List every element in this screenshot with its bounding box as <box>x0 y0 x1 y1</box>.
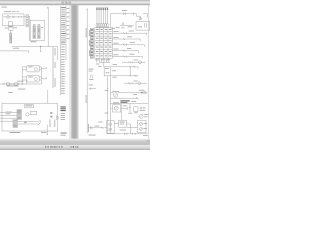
status bar controls <box>45 146 46 148</box>
vertical rail V3 <box>52 47 54 88</box>
connector C2 <box>10 33 12 43</box>
feed step to relay <box>136 14 138 17</box>
terminal drop wires <box>96 10 98 24</box>
bus harness label 1 <box>85 28 88 38</box>
wire W2 horizontal <box>0 50 29 52</box>
wire run K <box>127 126 138 128</box>
page footer right <box>143 134 148 137</box>
label box mid <box>30 111 37 114</box>
wires into ECU left <box>0 111 17 113</box>
stub wire left mid <box>89 88 96 90</box>
connector C10 hatched <box>90 28 93 58</box>
bus join 1 <box>99 61 110 63</box>
label near BC <box>98 121 102 124</box>
code table rows lower <box>61 61 65 64</box>
bus join 3 <box>104 75 138 77</box>
circuit wire E <box>120 55 142 57</box>
relay coil K1 <box>7 16 10 19</box>
feed wire top right <box>143 13 148 15</box>
ignition wire <box>120 25 134 27</box>
label bottom mid <box>120 129 127 132</box>
toolbar buttons <box>61 1 64 4</box>
labels above connectors <box>33 23 36 26</box>
connector C6 <box>13 120 18 128</box>
left schematic page <box>0 5 71 139</box>
toolbar top <box>0 0 150 5</box>
tick on vertical 1 <box>107 88 109 90</box>
contact S3 <box>3 83 5 85</box>
page header note <box>2 6 7 9</box>
harness label vertical 5 <box>53 120 56 128</box>
shield triangle <box>57 116 59 120</box>
lamp cluster <box>139 114 143 118</box>
resistor R1 <box>6 83 9 85</box>
motor pair cluster BR2 <box>138 120 146 132</box>
grid fan wires <box>96 58 98 62</box>
label under wire I <box>133 93 137 96</box>
label box inside top <box>25 104 34 107</box>
vertical V4 <box>47 90 49 103</box>
label above W3 <box>17 80 24 83</box>
left rail ladder <box>21 67 23 84</box>
main bus vertical <box>86 9 88 133</box>
right rail ladder <box>40 67 42 84</box>
C10 pin labels <box>88 30 91 36</box>
dark label pair <box>120 100 129 101</box>
contact S1 <box>41 67 44 69</box>
relay box BR1 <box>119 120 127 127</box>
bus join 2 <box>104 66 138 68</box>
arrow mark <box>25 121 28 123</box>
fusebox grid <box>95 27 113 58</box>
right page border <box>147 5 149 139</box>
connector C1 <box>26 15 28 27</box>
relay block K3 <box>30 20 44 40</box>
motor M1 <box>111 92 114 94</box>
wire run J main <box>111 103 149 105</box>
bottom gray zone <box>0 139 150 144</box>
splice drop <box>129 104 131 107</box>
relay K5 <box>27 75 39 82</box>
label near splice row <box>123 104 127 107</box>
label smudge mid <box>18 88 26 91</box>
fuse row <box>96 24 98 27</box>
circuit wire D <box>120 50 138 52</box>
drop to BR1 <box>121 104 123 121</box>
circuit wire A <box>120 32 147 34</box>
relay box TR <box>136 21 150 30</box>
contact S5 <box>38 123 40 125</box>
ECU label below <box>10 132 21 133</box>
fuse F1 <box>8 22 12 26</box>
long vertical 1 <box>107 76 109 134</box>
wire W3 main <box>0 83 41 85</box>
lamp L1 <box>26 113 29 116</box>
page footer text left page <box>61 132 67 135</box>
connector C5 <box>17 110 22 120</box>
wire down from ECU <box>46 125 48 135</box>
wire J1 to C1 <box>24 16 26 18</box>
harness label vertical 1 <box>54 48 57 56</box>
splice pair <box>89 75 91 79</box>
pin marks <box>50 112 52 114</box>
harness label vertical 3 <box>54 78 57 87</box>
splice tick top <box>133 13 135 15</box>
label small <box>8 91 12 94</box>
contact S4 <box>38 120 40 122</box>
label left mid2 <box>89 84 93 87</box>
title block dark text <box>60 106 65 107</box>
connector C4 <box>38 26 41 39</box>
contact S2 <box>41 78 44 80</box>
wire bottom main <box>107 133 148 135</box>
corner grip <box>146 140 150 142</box>
title block light text <box>61 112 65 115</box>
wire bottom left <box>89 127 107 129</box>
label mid verticals <box>105 89 109 92</box>
ticks on bottom wire <box>123 133 125 135</box>
label feed <box>112 27 115 30</box>
connector C3 <box>33 26 36 39</box>
wire from BR1 <box>126 123 130 125</box>
resistor R2 <box>15 83 18 85</box>
bus harness label 2 <box>85 95 88 103</box>
stub wire y108 <box>122 107 128 109</box>
wire bus in J1 <box>3 16 24 18</box>
junction node A <box>40 46 41 47</box>
long vertical 2 <box>110 67 112 134</box>
wire inner 1 <box>18 121 38 123</box>
label above W1 <box>13 47 19 50</box>
relay K4 <box>27 65 39 72</box>
relay coil K2 <box>12 16 14 18</box>
left page title text <box>4 10 11 13</box>
harness label vertical 4 <box>49 120 52 128</box>
vertical rail V2 <box>57 47 59 60</box>
grid output wires <box>112 32 120 34</box>
stub up <box>26 80 28 84</box>
labels fan <box>96 63 99 66</box>
left labels mid <box>89 68 94 71</box>
harness label vertical 2 <box>54 62 57 68</box>
fusible link FL1 <box>122 12 124 15</box>
circuit wire C <box>120 44 144 46</box>
twin sockets <box>140 107 142 109</box>
fuse F2 <box>9 26 13 30</box>
switch SW1 <box>121 23 123 26</box>
feed wire top <box>111 13 137 15</box>
right schematic page <box>78 5 150 139</box>
wire from C1 down <box>29 16 30 18</box>
wire run I <box>118 92 147 94</box>
wire W1 horizontal <box>12 46 58 48</box>
component cluster CL1 <box>113 101 119 104</box>
junction box J1 <box>3 14 24 26</box>
wire run F <box>122 61 145 63</box>
wire inner 2 <box>18 123 38 125</box>
ECU box <box>2 103 58 131</box>
junction dots W3 <box>18 84 19 85</box>
label below K3 <box>31 41 37 42</box>
wire run G <box>124 82 147 84</box>
status bar <box>0 144 150 150</box>
bus harness label 3 <box>87 124 90 132</box>
riser x130 <box>129 67 131 76</box>
wire run H <box>111 97 139 99</box>
wire F2 down <box>10 30 12 33</box>
label below W3 <box>7 85 19 88</box>
circuit wire B <box>120 38 140 40</box>
label text left <box>6 111 12 114</box>
connector block BC <box>107 121 115 134</box>
code table frame <box>60 6 62 95</box>
label right of J wire <box>131 100 136 103</box>
splice bar 1 <box>129 107 131 112</box>
splice ticks <box>10 83 12 85</box>
code table rows <box>61 6 66 9</box>
contact tick <box>18 16 20 18</box>
gap between pages <box>71 5 79 139</box>
battery terminal row <box>96 8 97 10</box>
vertical feed V1 <box>47 9 49 47</box>
splice box <box>134 107 138 112</box>
label bottom left <box>89 134 96 137</box>
